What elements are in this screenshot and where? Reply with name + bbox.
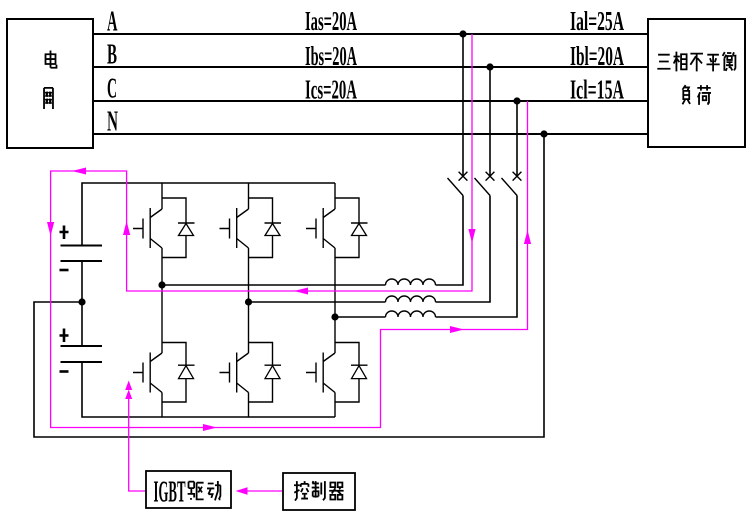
svg-text:Ibs=20A: Ibs=20A — [305, 41, 357, 71]
text 电 of 电网 — [46, 51, 57, 68]
wire IGBT drive signal — [129, 398, 145, 491]
svg-text:Ics=20A: Ics=20A — [305, 75, 357, 105]
load box 三相不平衡负荷 — [648, 19, 745, 147]
label Icl=15A — [570, 75, 624, 105]
wire emitter leg 2 to phase node — [248, 248, 250, 302]
arrow up on riser C — [524, 230, 531, 244]
wire emitter leg 1 to phase node — [161, 248, 163, 285]
junction node N — [540, 130, 547, 137]
wire emitter leg 6 to DC- bus — [334, 393, 336, 418]
wire riser B to switch S2 — [489, 67, 491, 176]
controller box 控制器 — [283, 473, 355, 510]
IGBT Q5 — [220, 353, 249, 393]
svg-text:IGBT: IGBT — [154, 474, 186, 509]
arrow up on left inner riser — [123, 221, 130, 235]
label phase B — [107, 39, 117, 71]
switch S1 — [448, 172, 468, 196]
text 器 of 控制器 — [329, 482, 343, 499]
text san of 三相不平衡 — [657, 55, 670, 69]
power grid box 电网 — [7, 19, 93, 148]
wire phase line C — [94, 100, 647, 102]
IGBT Q1 — [133, 208, 162, 248]
label phase C — [107, 73, 117, 105]
wire emitter leg 3 to phase node — [334, 248, 336, 317]
label phase A — [107, 6, 118, 38]
IGBT drive box IGBT驱动 — [146, 471, 231, 508]
arrow left on phase-A return — [294, 288, 308, 295]
wire switch S1 to inductor L1 — [436, 196, 464, 286]
arrow left on top magenta run — [72, 168, 86, 175]
wire phase node 2 to inductor L2 — [249, 301, 386, 303]
wire controller to IGBT drive — [246, 490, 282, 492]
inductor L2 — [386, 296, 436, 302]
svg-text:Icl=15A: Icl=15A — [570, 75, 624, 105]
wire collector leg 1 from DC+ bus — [161, 183, 163, 209]
junction phase node 1 — [158, 281, 165, 288]
wire phase node 1 to inductor L1 — [162, 284, 386, 286]
IGBT Q3 — [306, 208, 335, 248]
label phase N — [107, 106, 118, 138]
diode D5 — [249, 343, 282, 403]
arrow down on riser A — [468, 229, 475, 243]
arrow down on outer left riser — [47, 222, 54, 236]
svg-text:B: B — [107, 39, 117, 71]
svg-text:A: A — [107, 6, 118, 38]
junction node DC midpoint — [78, 298, 85, 305]
wire emitter leg 5 to DC- bus — [248, 393, 250, 418]
label Ial=25A — [570, 6, 624, 36]
text 网 of 电网 — [44, 88, 53, 109]
junction node A — [459, 30, 466, 37]
text 制 of 控制器 — [312, 481, 325, 500]
wire switch S3 to inductor L3 — [436, 196, 518, 318]
diode D1 — [162, 198, 195, 258]
label Ibs=20A — [305, 41, 357, 71]
wire DC negative bus — [82, 362, 335, 417]
diode D6 — [335, 343, 368, 403]
wire switch S2 to inductor L2 — [436, 196, 491, 303]
text bu of 三相不平衡 — [690, 54, 703, 72]
text 驱 of IGBT驱动 — [188, 482, 204, 500]
wire riser A to switch S1 — [462, 34, 464, 176]
junction phase node 2 — [245, 298, 252, 305]
IGBT Q6 — [306, 353, 335, 393]
wire capacitor C1 to midpoint to capacitor C2 — [81, 261, 83, 346]
label Ias=20A — [305, 6, 357, 36]
wire phase line B — [94, 66, 647, 68]
wire phase line N — [94, 133, 647, 135]
label IGBT of drive box — [154, 474, 186, 509]
arrow up IGBT drive (head 2) — [125, 390, 132, 400]
wire emitter leg 4 to DC- bus — [161, 393, 163, 418]
wire phase node to collector leg 6 — [334, 317, 336, 353]
svg-text:C: C — [107, 73, 117, 105]
text xiang of 三相不平衡 — [674, 52, 687, 72]
svg-text:Ibl=20A: Ibl=20A — [570, 41, 624, 71]
junction phase node 3 — [331, 313, 338, 320]
arrow right on bottom magenta run — [203, 424, 217, 431]
wire magenta compensation current path A to C — [51, 34, 528, 428]
diode D4 — [162, 343, 195, 403]
arrow left controller to drive — [236, 487, 248, 494]
wire riser C to switch S3 — [516, 101, 518, 176]
arrow right on mid magenta run — [450, 326, 464, 333]
text 动 of IGBT驱动 — [207, 481, 221, 500]
diode D2 — [249, 198, 282, 258]
capacitor C2 — [60, 329, 103, 372]
junction node B — [486, 63, 493, 70]
wire phase node to collector leg 5 — [248, 302, 250, 353]
arrow up IGBT drive (head 1) — [125, 381, 132, 391]
text 荷 of 负荷 — [697, 85, 711, 105]
wire phase node 3 to inductor L3 — [335, 316, 386, 318]
junction node C — [513, 97, 520, 104]
wire neutral return N to DC midpoint — [34, 134, 544, 437]
wire collector leg 2 from DC+ bus — [248, 183, 250, 209]
IGBT Q2 — [220, 208, 249, 248]
wire phase node to collector leg 4 — [161, 285, 163, 353]
text 控 of 控制器 — [294, 481, 308, 501]
svg-text:N: N — [107, 106, 118, 138]
diode D3 — [335, 198, 368, 258]
text ping of 三相不平衡 — [707, 55, 720, 72]
switch S2 — [475, 172, 495, 196]
svg-text:Ial=25A: Ial=25A — [570, 6, 624, 36]
inductor L3 — [386, 311, 436, 317]
label Ibl=20A — [570, 41, 624, 71]
IGBT Q4 — [133, 353, 162, 393]
label Ics=20A — [305, 75, 357, 105]
inductor L1 — [386, 279, 436, 285]
capacitor C1 — [60, 226, 103, 271]
text heng of 三相不平衡 — [723, 52, 737, 71]
switch S3 — [502, 172, 522, 196]
text 负 of 负荷 — [682, 85, 690, 104]
wire DC positive bus — [82, 183, 335, 245]
svg-text:Ias=20A: Ias=20A — [305, 6, 357, 36]
wire phase line A — [94, 33, 647, 35]
wire collector leg 3 from DC+ bus — [334, 183, 336, 209]
